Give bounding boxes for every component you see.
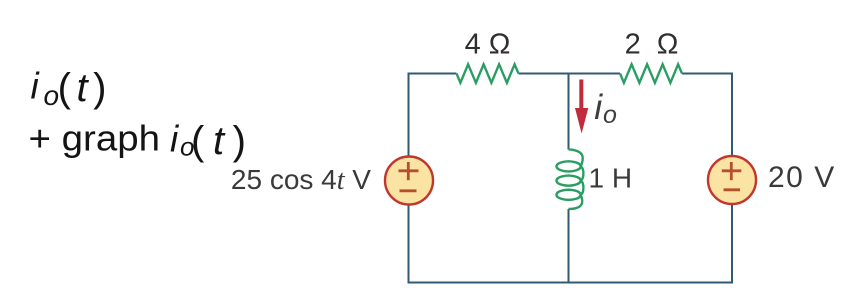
wire: top-middle segment [519, 73, 620, 75]
svg-text:i: i [170, 118, 180, 159]
svg-text:2 Ω: 2 Ω [625, 29, 683, 61]
current arrow io [575, 80, 588, 134]
label io near arrow [594, 87, 617, 129]
source V1 plus [399, 169, 419, 172]
text line2 + graph io(t) [29, 118, 247, 163]
source V2 minus [724, 188, 741, 191]
svg-text:(t): (t) [191, 119, 246, 163]
wire: left vertical lower + bottom + right vertical lower [409, 205, 733, 283]
wire: middle vertical upper [568, 74, 570, 150]
svg-text:25 cos 4t V: 25 cos 4t V [231, 164, 371, 196]
svg-text:+ graph: + graph [29, 118, 161, 159]
wire: top-left segment [409, 74, 457, 157]
text line1 io(t) [31, 66, 107, 111]
svg-text:4 Ω: 4 Ω [465, 29, 511, 61]
source V1 circle (25 cos 4t V) [385, 157, 433, 205]
wire: middle vertical lower [568, 209, 570, 283]
wire: top-right segment [682, 74, 732, 156]
svg-text:i: i [594, 87, 603, 127]
svg-text:(t): (t) [58, 66, 107, 110]
svg-text:o: o [603, 101, 617, 129]
resistor R1 4ohm [457, 64, 519, 83]
svg-text:1 H: 1 H [589, 163, 633, 194]
inductor L1 1H [557, 149, 584, 209]
svg-text:i: i [31, 66, 41, 107]
source V1 minus [400, 189, 417, 192]
resistor R2 2ohm [620, 64, 682, 83]
source V2 plus [722, 169, 742, 172]
svg-text:20 V: 20 V [768, 161, 836, 194]
source V2 circle (20 V) [708, 156, 756, 204]
